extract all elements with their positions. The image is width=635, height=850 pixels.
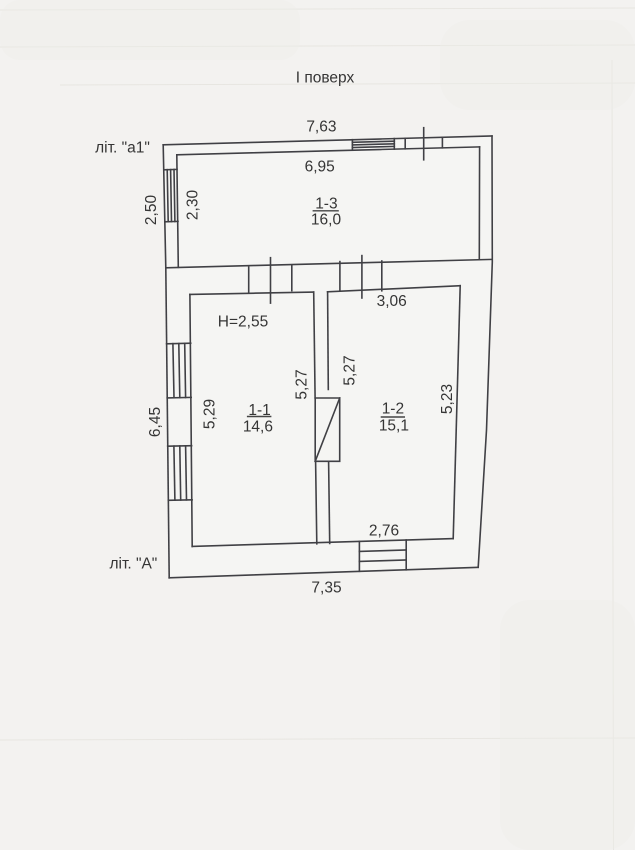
svg-text:літ. "а1": літ. "а1"	[95, 140, 150, 157]
main outer left wall	[166, 268, 169, 578]
bottom steps lines	[359, 550, 406, 551]
svg-text:5,29: 5,29	[202, 399, 219, 429]
room 1-2 right	[453, 286, 460, 539]
svg-text:І поверх: І поверх	[296, 70, 355, 87]
window annex top hatch	[352, 141, 394, 142]
bottom steps jambs	[358, 541, 360, 571]
svg-text:6,95: 6,95	[305, 159, 335, 176]
top wall long tick	[423, 128, 425, 160]
svg-text:6,45: 6,45	[147, 407, 164, 437]
main outer bottom wall	[169, 567, 478, 578]
window main left upper hatch	[173, 344, 174, 398]
door leaf	[315, 398, 340, 461]
window main left upper jambs	[167, 342, 191, 345]
building footprint fill	[163, 136, 492, 578]
svg-text:15,1: 15,1	[379, 418, 409, 435]
annex outer left wall	[163, 145, 166, 268]
svg-text:2,50: 2,50	[143, 195, 160, 226]
annex outer top wall	[163, 136, 492, 145]
outer right wall	[478, 136, 492, 567]
window annex left hatch	[167, 170, 168, 222]
svg-text:5,27: 5,27	[294, 369, 311, 399]
inner bottom line	[192, 539, 453, 547]
window main left lower jambs	[168, 445, 192, 448]
junction ticks left group	[248, 267, 250, 293]
svg-text:літ. "А": літ. "А"	[109, 556, 157, 573]
window annex top jambs	[351, 140, 353, 151]
middle wall left line upper	[314, 292, 315, 398]
svg-text:7,35: 7,35	[311, 580, 341, 597]
svg-text:1-3: 1-3	[315, 196, 337, 213]
window annex left jamb bottom	[165, 220, 178, 222]
svg-text:5,23: 5,23	[439, 384, 456, 414]
svg-text:7,63: 7,63	[306, 119, 336, 136]
middle wall right line upper	[327, 292, 330, 390]
window annex left jamb top	[164, 168, 177, 170]
shared wall line annex floor	[166, 259, 492, 267]
middle wall left line lower	[316, 462, 317, 544]
svg-text:1-2: 1-2	[382, 400, 404, 417]
annex inner right wall	[478, 147, 480, 260]
middle wall right line lower	[329, 462, 330, 544]
svg-text:H=2,55: H=2,55	[218, 314, 268, 331]
svg-text:2,30: 2,30	[185, 190, 202, 221]
svg-text:14,6: 14,6	[243, 419, 273, 436]
junction ticks right group	[339, 262, 341, 291]
annex inner top wall	[177, 147, 480, 155]
room 1-1 left	[190, 294, 192, 546]
window main left lower hatch	[174, 446, 175, 500]
room 1-2 top	[328, 286, 461, 292]
svg-text:3,06: 3,06	[377, 293, 407, 310]
svg-text:5,27: 5,27	[341, 355, 358, 385]
svg-text:2,76: 2,76	[369, 523, 399, 540]
svg-text:16,0: 16,0	[311, 212, 342, 229]
room 1-1 top	[190, 292, 314, 294]
top wall cell dividers	[404, 138, 406, 149]
annex inner left wall	[177, 155, 179, 267]
